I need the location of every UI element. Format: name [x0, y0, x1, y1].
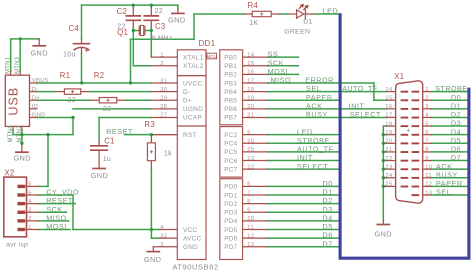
- svg-text:GND: GND: [374, 230, 391, 239]
- svg-text:X2: X2: [4, 169, 14, 178]
- svg-text:23: 23: [385, 164, 392, 170]
- svg-text:PC2: PC2: [224, 132, 237, 139]
- svg-text:D+: D+: [183, 98, 192, 105]
- svg-text:20: 20: [385, 139, 392, 145]
- svg-text:2: 2: [160, 61, 164, 67]
- svg-text:1u: 1u: [103, 156, 112, 163]
- svg-text:PD4: PD4: [224, 218, 237, 225]
- svg-text:UCAP: UCAP: [183, 115, 202, 122]
- svg-text:11: 11: [425, 173, 432, 179]
- svg-text:7: 7: [425, 139, 429, 145]
- svg-text:D1: D1: [303, 19, 312, 26]
- svg-text:RST: RST: [183, 132, 197, 139]
- svg-text:4: 4: [160, 225, 164, 231]
- svg-text:11: 11: [247, 225, 254, 231]
- svg-text:R3: R3: [144, 120, 155, 129]
- svg-text:AUTO_TF: AUTO_TF: [342, 84, 378, 93]
- svg-text:PC6: PC6: [224, 158, 237, 165]
- svg-text:MTN3: MTN3: [15, 56, 21, 74]
- svg-text:GND: GND: [13, 154, 30, 163]
- svg-text:GND: GND: [30, 48, 47, 57]
- svg-text:1: 1: [160, 52, 164, 58]
- svg-text:6: 6: [425, 130, 429, 136]
- svg-text:23: 23: [247, 156, 254, 162]
- svg-text:PD5: PD5: [224, 227, 237, 234]
- svg-text:UGND: UGND: [183, 106, 203, 113]
- svg-text:C1: C1: [104, 136, 115, 145]
- svg-text:D-: D-: [183, 89, 190, 96]
- svg-text:PB3: PB3: [224, 80, 237, 87]
- svg-text:25: 25: [247, 147, 254, 153]
- svg-text:LED: LED: [323, 7, 339, 16]
- svg-text:Q1: Q1: [117, 28, 128, 37]
- svg-text:SELECT: SELECT: [297, 162, 328, 171]
- svg-text:MTN4: MTN4: [8, 125, 14, 143]
- svg-text:GND: GND: [91, 171, 108, 180]
- svg-text:AVCC: AVCC: [183, 235, 202, 242]
- svg-text:3: 3: [28, 208, 32, 214]
- svg-text:10: 10: [247, 216, 254, 222]
- svg-text:21: 21: [247, 113, 254, 119]
- svg-text:15: 15: [385, 96, 392, 102]
- svg-text:SEL: SEL: [436, 188, 451, 197]
- svg-text:22: 22: [247, 164, 254, 170]
- svg-text:4: 4: [28, 199, 32, 205]
- svg-text:12: 12: [247, 233, 254, 239]
- svg-text:8: 8: [425, 147, 429, 153]
- svg-text:PD6: PD6: [224, 235, 237, 242]
- svg-text:8 MHz: 8 MHz: [152, 35, 173, 42]
- svg-text:AT90USB82: AT90USB82: [172, 263, 218, 272]
- svg-text:PD2: PD2: [224, 201, 237, 208]
- svg-text:6: 6: [247, 182, 251, 188]
- svg-text:21: 21: [385, 147, 392, 153]
- svg-text:X1: X1: [394, 72, 404, 81]
- svg-text:SELECT: SELECT: [350, 110, 381, 119]
- svg-text:C3: C3: [155, 22, 166, 31]
- svg-text:R1: R1: [60, 71, 71, 80]
- svg-text:10: 10: [425, 164, 432, 170]
- svg-text:PB6: PB6: [224, 106, 237, 113]
- svg-text:8: 8: [247, 199, 251, 205]
- svg-text:MISO: MISO: [271, 76, 292, 85]
- svg-text:PC5: PC5: [224, 149, 237, 156]
- svg-text:22: 22: [68, 97, 77, 104]
- svg-text:GND: GND: [183, 244, 198, 251]
- svg-text:PC7: PC7: [224, 166, 237, 173]
- svg-text:17: 17: [247, 78, 254, 84]
- svg-text:ID: ID: [32, 104, 38, 110]
- svg-text:5: 5: [247, 130, 251, 136]
- svg-text:19: 19: [385, 130, 392, 136]
- svg-text:14: 14: [247, 52, 254, 58]
- svg-text:14: 14: [385, 87, 392, 93]
- svg-text:C4: C4: [69, 24, 80, 33]
- svg-text:2: 2: [28, 216, 32, 222]
- svg-text:5: 5: [28, 190, 32, 196]
- svg-text:D7: D7: [451, 153, 461, 162]
- svg-text:19: 19: [247, 96, 254, 102]
- svg-text:XTAL2: XTAL2: [183, 63, 204, 70]
- svg-text:R2: R2: [94, 71, 105, 80]
- svg-text:22: 22: [155, 8, 164, 15]
- svg-text:USB: USB: [7, 87, 21, 116]
- svg-text:6: 6: [28, 182, 32, 188]
- svg-text:24: 24: [385, 173, 392, 179]
- svg-text:D-: D-: [32, 87, 39, 93]
- svg-text:5: 5: [425, 121, 429, 127]
- svg-text:avr isp: avr isp: [6, 242, 28, 249]
- svg-text:PD0: PD0: [224, 184, 237, 191]
- svg-text:D7: D7: [323, 239, 333, 248]
- svg-text:GND: GND: [144, 255, 161, 264]
- svg-text:UVCC: UVCC: [183, 80, 202, 87]
- svg-text:13: 13: [425, 190, 432, 196]
- svg-text:PB5: PB5: [224, 98, 237, 105]
- svg-text:BUSY: BUSY: [306, 110, 328, 119]
- svg-text:PD1: PD1: [224, 192, 237, 199]
- svg-text:7: 7: [247, 190, 251, 196]
- svg-text:9: 9: [425, 156, 429, 162]
- svg-text:22: 22: [103, 106, 112, 113]
- svg-text:PB1: PB1: [224, 63, 237, 70]
- svg-text:18: 18: [385, 121, 392, 127]
- svg-text:C2: C2: [117, 7, 128, 16]
- svg-text:MTN1: MTN1: [6, 56, 12, 74]
- svg-text:32: 32: [160, 233, 167, 239]
- svg-text:22: 22: [385, 156, 392, 162]
- svg-text:1k: 1k: [164, 151, 172, 158]
- svg-text:16: 16: [385, 104, 392, 110]
- svg-text:R4: R4: [248, 1, 259, 10]
- svg-text:1: 1: [425, 87, 429, 93]
- svg-text:4: 4: [425, 113, 429, 119]
- svg-text:MTN2: MTN2: [17, 125, 23, 143]
- svg-text:12: 12: [425, 182, 432, 188]
- svg-text:GREEN: GREEN: [284, 29, 310, 36]
- svg-text:28: 28: [160, 104, 167, 110]
- svg-text:DD1: DD1: [199, 39, 216, 48]
- svg-text:27: 27: [160, 113, 167, 119]
- svg-text:PD3: PD3: [224, 210, 237, 217]
- svg-text:16: 16: [247, 70, 254, 76]
- svg-text:15: 15: [247, 61, 254, 67]
- svg-text:PB7: PB7: [224, 115, 237, 122]
- svg-text:VBUS: VBUS: [32, 78, 49, 84]
- svg-text:PC4: PC4: [224, 141, 237, 148]
- svg-text:RESET: RESET: [106, 127, 133, 136]
- svg-text:2: 2: [425, 96, 429, 102]
- svg-text:13: 13: [247, 242, 254, 248]
- svg-text:PD7: PD7: [224, 244, 237, 251]
- svg-text:10u: 10u: [63, 52, 76, 59]
- svg-text:MCU: MCU: [206, 54, 217, 59]
- svg-text:1: 1: [28, 225, 32, 231]
- svg-text:PB2: PB2: [224, 72, 237, 79]
- svg-text:30: 30: [160, 87, 167, 93]
- svg-text:PB0: PB0: [224, 54, 237, 61]
- svg-text:9: 9: [247, 208, 251, 214]
- svg-text:18: 18: [247, 87, 254, 93]
- svg-text:VCC: VCC: [183, 227, 197, 234]
- svg-text:3: 3: [160, 242, 164, 248]
- svg-text:29: 29: [160, 96, 167, 102]
- svg-text:MOSI: MOSI: [46, 222, 67, 231]
- svg-text:XTAL1: XTAL1: [183, 54, 204, 61]
- svg-text:D+: D+: [32, 95, 41, 101]
- svg-text:1K: 1K: [249, 20, 258, 27]
- svg-text:GND: GND: [168, 15, 185, 24]
- svg-text:GND: GND: [32, 113, 46, 119]
- svg-text:3: 3: [425, 104, 429, 110]
- svg-text:31: 31: [160, 78, 167, 84]
- svg-text:25: 25: [385, 182, 392, 188]
- svg-text:PB4: PB4: [224, 89, 237, 96]
- svg-text:26: 26: [247, 139, 254, 145]
- svg-text:17: 17: [385, 113, 392, 119]
- svg-text:20: 20: [247, 104, 254, 110]
